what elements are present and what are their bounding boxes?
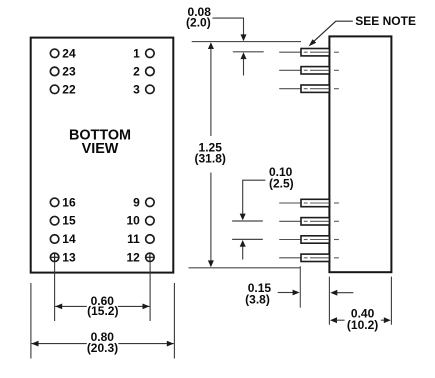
pin 15	[50, 214, 76, 228]
side pin 9	[279, 199, 339, 206]
svg-text:(2.5): (2.5)	[269, 176, 294, 190]
svg-text:(31.8): (31.8)	[195, 152, 226, 166]
pin 11	[127, 232, 154, 246]
side view package outline	[329, 36, 391, 272]
side pin 1	[279, 49, 339, 56]
pin 2	[133, 64, 154, 78]
svg-text:3: 3	[133, 82, 140, 96]
dimension 0.08 (2.0)	[186, 5, 246, 75]
svg-text:(3.8): (3.8)	[245, 292, 270, 306]
0.10 reference line upper	[232, 220, 263, 222]
svg-text:12: 12	[126, 250, 140, 264]
svg-text:11: 11	[127, 232, 140, 246]
pin 3	[133, 82, 154, 96]
pin 12 (polarity mark)	[126, 250, 154, 264]
side pin 3	[279, 85, 339, 92]
side pin 2	[279, 67, 339, 74]
svg-text:16: 16	[62, 195, 76, 209]
svg-text:(2.0): (2.0)	[186, 16, 211, 30]
pin 9	[133, 195, 154, 209]
bottom view package outline	[31, 38, 174, 273]
svg-text:(15.2): (15.2)	[87, 304, 118, 318]
pin 10	[126, 214, 154, 228]
svg-text:9: 9	[133, 195, 140, 209]
dimension 0.10 (2.5)	[240, 165, 294, 259]
side pin 10	[279, 218, 339, 225]
0.10 reference line lower	[232, 238, 263, 240]
pin 1 centerline reference	[233, 51, 264, 53]
svg-text:14: 14	[62, 232, 76, 246]
svg-text:1: 1	[133, 46, 140, 60]
dimension 0.60 (15.2)	[55, 294, 149, 318]
dimension 0.80 (20.3)	[32, 330, 174, 355]
pin 12 extension line	[149, 262, 151, 321]
pin 14	[50, 232, 76, 246]
bottom reference line	[189, 267, 301, 269]
pin 22	[50, 82, 76, 96]
svg-text:15: 15	[62, 214, 76, 228]
pin 23	[50, 64, 76, 78]
svg-text:22: 22	[62, 82, 76, 96]
0.40 right extension line	[390, 277, 392, 325]
pin 24	[50, 46, 76, 60]
pin 16	[50, 195, 76, 209]
svg-text:SEE NOTE: SEE NOTE	[355, 14, 416, 28]
svg-text:(10.2): (10.2)	[347, 318, 378, 332]
0.80 left extension line	[30, 283, 32, 359]
svg-text:VIEW: VIEW	[82, 141, 119, 157]
svg-text:(20.3): (20.3)	[87, 341, 118, 355]
label BOTTOM VIEW	[69, 128, 131, 158]
pin 13 (polarity mark)	[50, 250, 76, 264]
0.80 right extension line	[173, 283, 175, 359]
top reference line	[192, 41, 301, 43]
svg-text:13: 13	[62, 250, 76, 264]
side pin 11	[279, 236, 339, 243]
0.40 left extension line	[328, 277, 330, 325]
svg-text:23: 23	[62, 64, 76, 78]
svg-text:24: 24	[62, 46, 76, 60]
dimension 1.25 (31.8)	[195, 42, 226, 267]
dimension 0.40 (10.2)	[330, 306, 391, 332]
svg-text:2: 2	[133, 64, 140, 78]
pin 13 extension line	[54, 262, 56, 321]
side pin 12	[279, 254, 339, 261]
dimension 0.15 (3.8)	[245, 281, 353, 306]
pin 1	[133, 46, 154, 60]
pin tip reference line	[299, 266, 301, 308]
svg-text:10: 10	[126, 214, 140, 228]
SEE NOTE leader	[309, 21, 353, 46]
